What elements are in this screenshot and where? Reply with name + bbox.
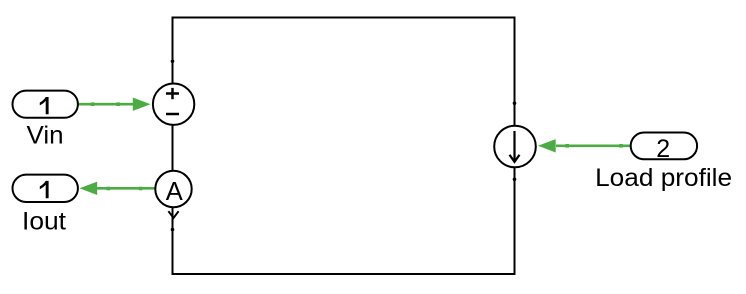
svg-text:Vin: Vin xyxy=(27,122,64,150)
svg-text:Iout: Iout xyxy=(22,208,66,236)
svg-text:Load profile: Load profile xyxy=(595,164,732,192)
svg-text:2: 2 xyxy=(656,135,670,163)
svg-text:A: A xyxy=(166,178,183,206)
